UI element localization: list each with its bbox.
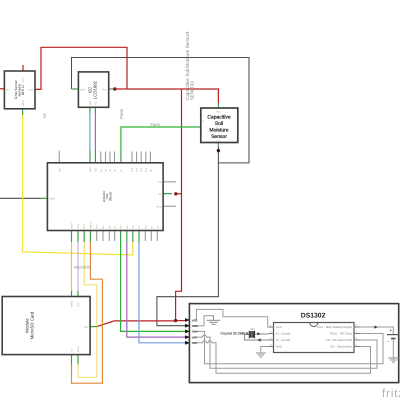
svg-text:SDA: SDA <box>89 167 92 172</box>
svg-text:MISO: MISO <box>71 301 74 307</box>
svg-text:GND: GND <box>156 206 161 209</box>
svg-text:(Rev3): (Rev3) <box>109 192 113 202</box>
svg-text:D10: D10 <box>96 224 99 229</box>
svg-text:CLK: CLK <box>192 330 198 334</box>
svg-text:VCC: VCC <box>216 111 221 114</box>
svg-text:MOSI: MOSI <box>89 222 92 228</box>
svg-text:GND: GND <box>192 324 198 328</box>
svg-text:X2 - Crystal: X2 - Crystal <box>276 338 291 342</box>
svg-text:Vcc1 - Main: Backup/Supply: Vcc1 - Main: Backup/Supply <box>317 325 353 329</box>
svg-text:Crystal 32.768KHz: Crystal 32.768KHz <box>221 331 251 335</box>
svg-text:DS1302: DS1302 <box>301 313 326 320</box>
svg-text:Moisture: Moisture <box>209 128 228 134</box>
svg-text:SCK: SCK <box>77 223 80 228</box>
svg-text:VCC: VCC <box>192 318 198 322</box>
svg-text:MOSI: MOSI <box>77 346 80 352</box>
svg-text:microSD1: microSD1 <box>74 265 92 270</box>
svg-text:Sensor: Sensor <box>211 134 227 140</box>
svg-text:D13: D13 <box>83 224 86 229</box>
svg-text:PWM: PWM <box>119 109 124 119</box>
svg-text:CS: CS <box>71 348 74 352</box>
svg-text:CE - Chip Enable: CE - Chip Enable <box>330 345 352 349</box>
svg-text:H1: H1 <box>42 112 47 118</box>
svg-text:Soil: Soil <box>215 121 223 127</box>
svg-text:LCD1602: LCD1602 <box>93 80 98 99</box>
svg-text:X1 - Crystal: X1 - Crystal <box>276 332 291 336</box>
svg-text:Part1: Part1 <box>151 122 161 127</box>
svg-text:SCK: SCK <box>77 302 80 307</box>
svg-text:DATA: DATA <box>22 100 25 106</box>
svg-text:DAT: DAT <box>192 335 198 339</box>
svg-text:VCC: VCC <box>102 89 107 92</box>
svg-text:VIN: VIN <box>158 181 162 184</box>
svg-text:SEN0193: SEN0193 <box>190 81 195 100</box>
svg-text:GND: GND <box>50 198 55 201</box>
svg-text:SCLK - SPI Clock: SCLK - SPI Clock <box>330 332 353 336</box>
svg-text:NC: NC <box>6 89 10 92</box>
svg-text:DHT11: DHT11 <box>21 85 25 95</box>
svg-text:D12: D12 <box>136 167 139 172</box>
svg-text:GND: GND <box>276 345 282 349</box>
svg-text:I/O - SPI Data In/Out: I/O - SPI Data In/Out <box>326 338 352 342</box>
svg-text:MISO: MISO <box>71 222 74 228</box>
svg-text:SCL: SCL <box>94 167 97 172</box>
svg-text:VCC: VCC <box>84 326 89 329</box>
svg-text:D13: D13 <box>131 167 134 172</box>
svg-text:SDA: SDA <box>89 100 92 105</box>
svg-text:SCL: SCL <box>95 100 98 105</box>
svg-text:Capacitive: Capacitive <box>207 114 231 120</box>
svg-text:GND: GND <box>80 89 85 92</box>
svg-text:XX1: XX1 <box>250 328 255 331</box>
svg-text:MicroSD Card: MicroSD Card <box>30 311 35 339</box>
svg-text:VCC: VCC <box>29 89 34 92</box>
svg-text:+: + <box>389 328 392 334</box>
svg-text:Gnd: Gnd <box>216 140 221 143</box>
svg-text:5V: 5V <box>159 193 162 196</box>
svg-text:fritzing: fritzing <box>382 388 400 400</box>
svg-text:VCC: VCC <box>22 77 25 82</box>
svg-text:RST: RST <box>58 167 61 172</box>
svg-text:RST: RST <box>192 341 198 345</box>
svg-text:Vcc2: Vcc2 <box>276 325 283 329</box>
svg-text:D10: D10 <box>145 167 148 172</box>
